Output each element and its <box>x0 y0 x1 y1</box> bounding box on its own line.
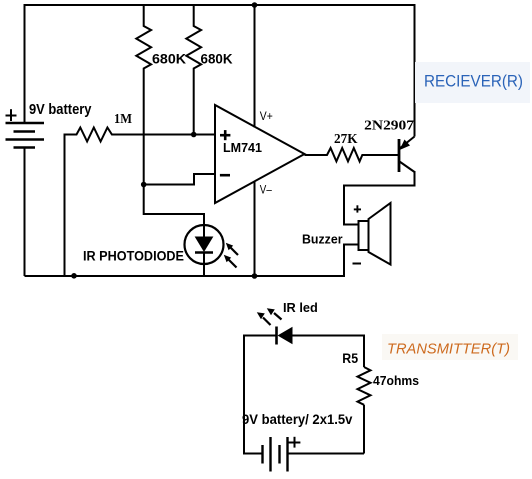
battery B1 9V (receiver) <box>6 123 45 148</box>
resistor R5 47ohms <box>358 367 371 405</box>
label: emitted light arrow 2 <box>257 312 271 325</box>
svg-text:680K: 680K <box>201 52 233 67</box>
svg-text:V+: V+ <box>260 111 273 123</box>
label: incoming light arrow 1 <box>226 243 238 255</box>
diode D2 IR led <box>277 327 293 345</box>
wire: left rail from top rail to battery + <box>24 4 26 123</box>
node: V- junction on bottom rail <box>252 273 258 279</box>
node: junction R3 / non-inverting input <box>191 132 197 138</box>
resistor R2 680K (left) <box>136 4 151 185</box>
svg-text:TRANSMITTER(T): TRANSMITTER(T) <box>387 342 510 358</box>
wire: inverting input feedback (op-amp to R2 bottom) <box>144 174 215 185</box>
label: transmitter battery + polarity <box>289 437 301 448</box>
wire: branch from junction down to photodiode anode <box>144 185 204 226</box>
svg-text:R5: R5 <box>342 351 358 366</box>
wire: bottom ground rail <box>25 275 345 277</box>
node: junction R2 bottom / photodiode branch <box>141 182 147 188</box>
svg-text:47ohms: 47ohms <box>373 373 419 388</box>
svg-text:27K: 27K <box>334 132 358 147</box>
svg-text:Buzzer: Buzzer <box>302 232 343 246</box>
transistor Q1 2N2907 (PNP) <box>399 137 415 173</box>
label: battery + polarity <box>6 109 17 121</box>
label: op-amp - input <box>220 174 230 177</box>
svg-text:V–: V– <box>260 185 273 197</box>
op-amp U1 LM741 <box>215 105 305 203</box>
svg-text:RECIEVER(R): RECIEVER(R) <box>424 72 523 91</box>
battery B2 (transmitter) <box>263 437 288 472</box>
buzzer BZ1 <box>359 203 391 265</box>
label: emitted light arrow 1 <box>267 308 282 319</box>
photodiode D1 IR PHOTODIODE <box>185 225 224 276</box>
label: incoming light arrow 2 <box>224 255 237 268</box>
svg-text:IR PHOTODIODE: IR PHOTODIODE <box>83 249 184 264</box>
label: RECIEVER(R) title backdrop <box>415 62 530 103</box>
label: buzzer + polarity <box>354 205 361 212</box>
wire: left rail from battery - to bottom rail <box>24 148 26 277</box>
wire: V- supply pin <box>254 181 256 276</box>
svg-text:9V battery/ 2x1.5v: 9V battery/ 2x1.5v <box>242 412 353 427</box>
wire: buzzer - to bottom rail <box>344 245 359 278</box>
resistor R3 680K (right) <box>186 4 201 135</box>
node: junction bottom rail / R1 branch <box>71 273 77 279</box>
node: V+ junction on top rail <box>252 2 258 8</box>
svg-text:IR led: IR led <box>283 300 318 315</box>
svg-text:9V battery: 9V battery <box>29 102 92 118</box>
label: TRANSMITTER(T) title backdrop <box>382 334 518 360</box>
svg-text:680K: 680K <box>152 52 186 67</box>
wire: V+ supply pin <box>254 5 256 128</box>
wire: right rail from top rail down to transistor emitter <box>414 4 416 137</box>
resistor R1 1M <box>65 128 216 277</box>
wire: top +9V rail <box>25 4 415 6</box>
svg-text:2N2907: 2N2907 <box>364 118 414 133</box>
resistor R4 27K <box>305 148 399 161</box>
svg-text:LM741: LM741 <box>223 141 262 155</box>
label: op-amp + input <box>220 130 230 140</box>
wire: collector to buzzer + <box>344 171 415 225</box>
wire: transmitter loop <box>244 336 364 454</box>
label: buzzer - polarity <box>353 263 362 265</box>
svg-text:1M: 1M <box>114 112 132 127</box>
